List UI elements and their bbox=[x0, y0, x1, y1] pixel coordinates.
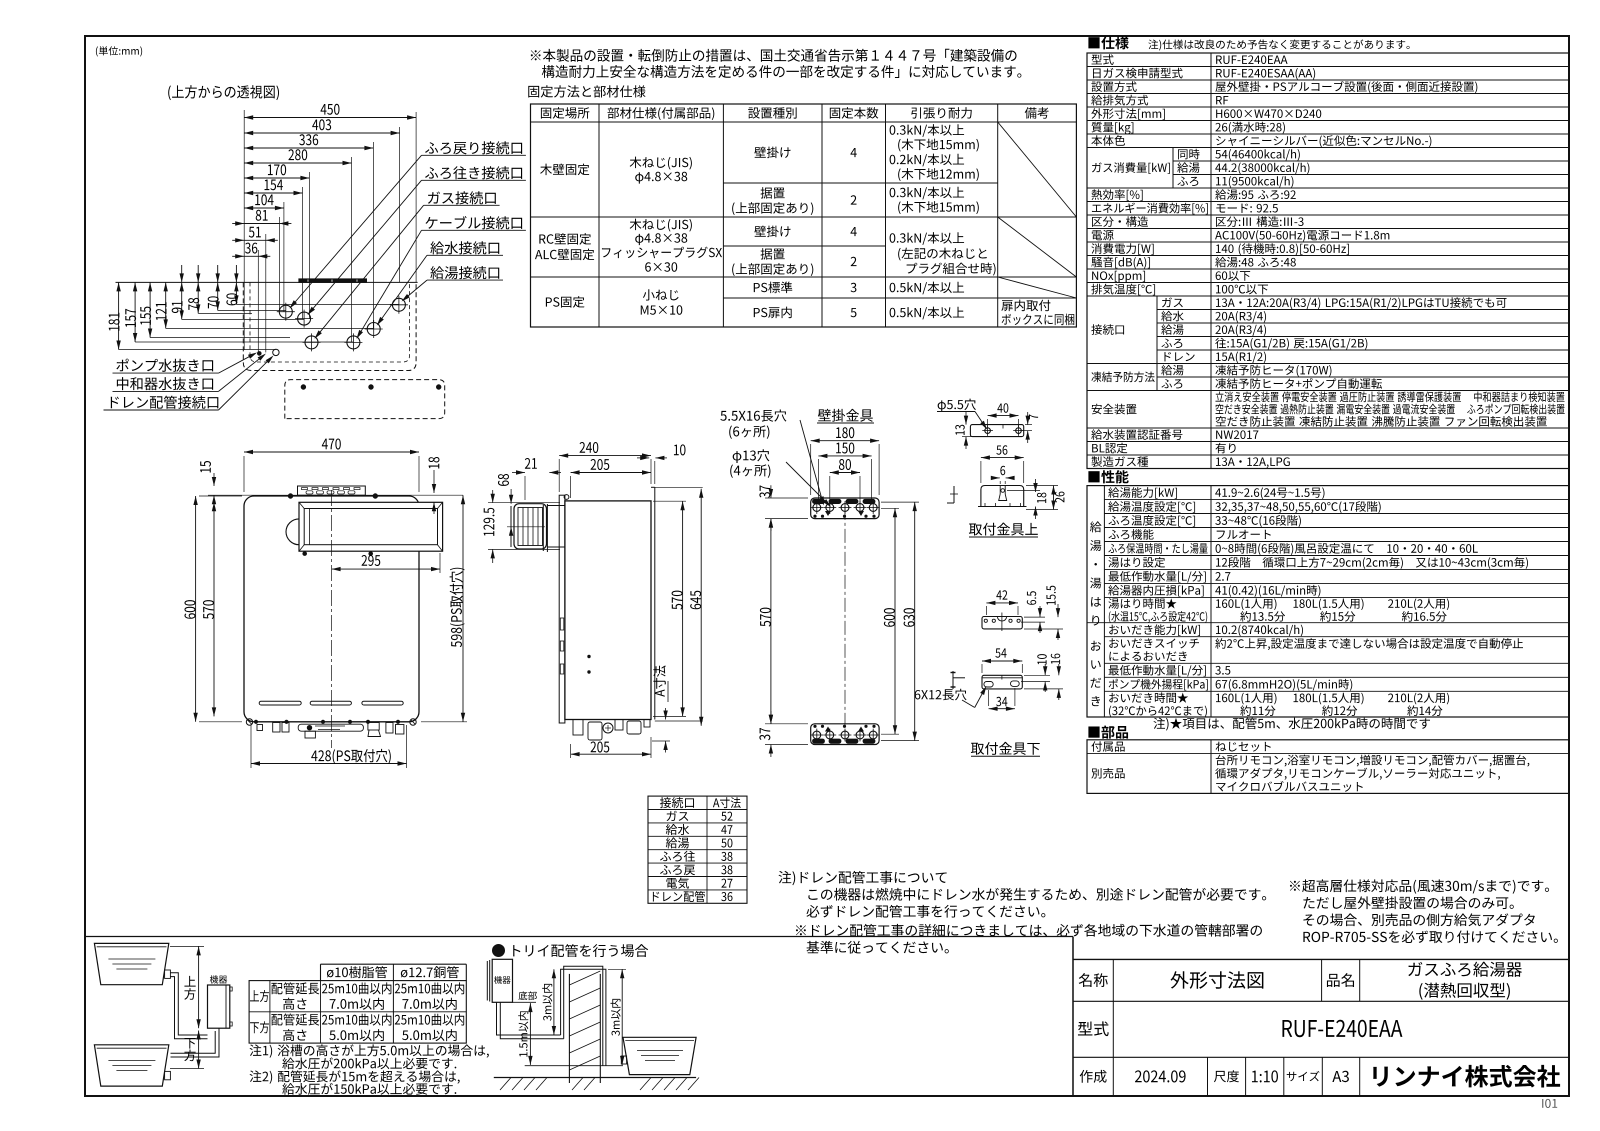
rear dim 150 bbox=[818, 455, 871, 457]
rear dim 180 bbox=[811, 440, 879, 442]
dim 34 bbox=[989, 708, 1015, 710]
top view dim 154 bbox=[244, 192, 302, 194]
label 取付金具上 bbox=[969, 523, 1038, 536]
screw dot bbox=[437, 385, 441, 389]
drain piping note bbox=[779, 871, 947, 885]
parts 付属品 bbox=[1091, 741, 1124, 752]
side view dim 68 bbox=[510, 489, 512, 504]
side view dim 129.5 bbox=[492, 490, 494, 503]
A寸法 row 接続口 bbox=[660, 797, 694, 808]
neutralizer drain circle bbox=[273, 349, 279, 355]
dim 15.5 bbox=[1057, 604, 1059, 617]
A-dimension table grid bbox=[648, 796, 747, 903]
fixing-method table title bbox=[528, 85, 645, 97]
rear view: top mounting bracket bbox=[811, 498, 879, 519]
torii dim 1.5m以内 bbox=[529, 1003, 531, 1065]
fixing table grid bbox=[531, 104, 1077, 327]
side view dim 10 bbox=[637, 457, 649, 459]
pipe unit->lower tub bbox=[171, 1028, 220, 1057]
label 給水接続口 bbox=[430, 241, 499, 254]
top view dim 450 bbox=[244, 117, 416, 119]
front view: bottom corner screws bbox=[246, 719, 252, 725]
label φ13穴 bbox=[733, 449, 770, 463]
front view: unit body bbox=[244, 496, 419, 722]
size A3 bbox=[1332, 1071, 1349, 1082]
orientation mark lower bbox=[952, 671, 954, 689]
unit 機器 box (left diagram) bbox=[208, 985, 230, 1028]
label ケーブル接続口 bbox=[425, 216, 522, 229]
side view dim 205 top bbox=[571, 472, 651, 474]
table header ø12.7銅管 bbox=[401, 966, 459, 978]
front view: ext line across body top bbox=[208, 494, 463, 496]
side view dim 645 bbox=[700, 489, 702, 726]
top fitting front view bbox=[981, 486, 1024, 507]
spec row 設置方式 bbox=[1091, 81, 1136, 92]
company リンナイ株式会社 bbox=[1373, 1065, 1560, 1088]
perf おいだき能力 bbox=[1109, 624, 1200, 636]
A寸法 row 給水 bbox=[666, 824, 689, 835]
rotated label おいだき bbox=[1091, 641, 1102, 706]
dim 6 bbox=[991, 477, 1000, 479]
rear view: center line bbox=[844, 506, 846, 738]
label ふろ戻り接続口 bbox=[425, 141, 522, 154]
front view: bottom louvers bbox=[259, 701, 301, 705]
torii dim 3m以内 left bbox=[553, 969, 555, 1035]
front view dim 600 bbox=[195, 496, 197, 722]
dim 26 bbox=[1053, 486, 1055, 510]
perf row 給湯能力[kW] bbox=[1108, 487, 1177, 499]
top view dim 403 bbox=[244, 132, 399, 134]
front view dim 428(PS取付穴) bbox=[251, 763, 407, 765]
spec 凍結予防方法 bbox=[1091, 372, 1154, 383]
orientation mark upper bbox=[953, 486, 955, 503]
spec row 排気温度[℃] bbox=[1091, 284, 1155, 296]
A寸法 row 電気 bbox=[666, 877, 689, 888]
spec row 型式 bbox=[1092, 54, 1114, 65]
spec ガス消費量 bbox=[1092, 162, 1170, 174]
spec row 外形寸法[mm] bbox=[1091, 108, 1165, 120]
top view depth dim 78 bbox=[197, 282, 199, 313]
front view dim 18 bbox=[433, 470, 435, 493]
screw dot bbox=[369, 385, 373, 389]
upper bath tub bbox=[94, 943, 168, 984]
performance header ■性能 bbox=[1088, 470, 1128, 483]
spec row エネルギー消費効率[%] bbox=[1092, 203, 1208, 215]
side view: dots bbox=[588, 655, 590, 657]
dim 56 bbox=[981, 457, 1024, 459]
side view dim 21 bbox=[512, 472, 525, 474]
scale 1:10 bbox=[1252, 1070, 1278, 1082]
torii: reference line bbox=[525, 1065, 623, 1067]
rear dim 600 bbox=[894, 508, 896, 734]
spec table grid bbox=[1087, 53, 1569, 469]
note 注1 bbox=[250, 1044, 489, 1057]
note line2 bbox=[542, 65, 1022, 78]
title サイズ bbox=[1287, 1071, 1320, 1081]
torii bath tub bbox=[623, 1037, 696, 1074]
spec row 給排気方式 bbox=[1091, 95, 1148, 106]
side view: back plate bbox=[559, 495, 565, 723]
torii: hatched wall bbox=[568, 974, 570, 1083]
top view dim 280 bbox=[244, 162, 351, 164]
connection port ケーブル接続口 bbox=[347, 336, 360, 349]
rear dim 37 bottom bbox=[770, 711, 772, 724]
label 壁掛金具 bbox=[818, 409, 873, 422]
connection port 給水接続口 bbox=[367, 323, 380, 336]
title 型式 bbox=[1078, 1021, 1109, 1036]
dim 上方 bbox=[198, 946, 200, 1028]
date 2024.09 bbox=[1135, 1070, 1186, 1082]
side view dim 240 bbox=[559, 455, 651, 457]
A寸法 row ふろ往 bbox=[660, 851, 695, 862]
perf 最低作動水量 bbox=[1109, 665, 1206, 677]
title 外形寸法図 bbox=[1170, 971, 1263, 989]
bottom fitting plan view strip bbox=[982, 617, 1022, 629]
dim 7 bbox=[1027, 412, 1029, 425]
spec row 質量[kg] bbox=[1092, 122, 1134, 135]
top view depth dim 121 bbox=[165, 282, 167, 328]
side view: left edge slots bbox=[560, 618, 564, 630]
torii: pipe down from unit bbox=[497, 1002, 561, 1035]
bottom fitting front view bbox=[982, 675, 1022, 689]
dim 40 bbox=[988, 415, 1019, 417]
side view: duct right flange bbox=[542, 505, 544, 551]
spec row 消費電力[W] bbox=[1091, 243, 1153, 255]
perf ポンプ機外揚程 bbox=[1109, 679, 1208, 691]
label ドレン配管接続口 bbox=[111, 396, 219, 409]
dim 16 bbox=[1058, 664, 1060, 675]
spec 接続口 bbox=[1091, 324, 1124, 335]
spec row NOx[ppm] bbox=[1092, 271, 1145, 283]
side view dim 205 bottom bbox=[571, 753, 651, 755]
top view dim 104 bbox=[244, 207, 284, 209]
front view: vent corner bevels bbox=[299, 502, 304, 508]
spec row 熱効率[%] bbox=[1091, 189, 1142, 201]
front view: bottom connection stubs bbox=[254, 720, 257, 723]
label ふろ往き接続口 bbox=[425, 166, 522, 179]
label ポンプ水抜き口 bbox=[116, 359, 213, 372]
front view dim 295 bbox=[332, 568, 440, 570]
top view: wall reference line bbox=[116, 281, 418, 283]
connection port ふろ往き接続口 bbox=[298, 312, 311, 325]
parts header ■部品 bbox=[1088, 726, 1128, 739]
rotated label 給湯・湯はり bbox=[1090, 521, 1101, 625]
top view dim 36 bbox=[244, 255, 258, 257]
perf row 最低作動水量[L/分] bbox=[1109, 571, 1206, 583]
spec row 電源 bbox=[1092, 230, 1114, 240]
top view: feature depth lines bbox=[119, 349, 276, 351]
connection port ガス接続口 bbox=[305, 336, 318, 349]
torii piping heading bbox=[493, 945, 505, 957]
A寸法 row ガス bbox=[667, 811, 689, 821]
torii: ground line bbox=[494, 1077, 696, 1079]
label 給湯接続口 bbox=[430, 266, 499, 279]
side view dim 570 bbox=[682, 501, 684, 716]
A寸法 row 給湯 bbox=[666, 837, 689, 848]
perf 湯はり時間 bbox=[1108, 598, 1176, 609]
perf row 給湯温度設定[℃] bbox=[1108, 501, 1195, 513]
perf おいだき時間 bbox=[1109, 692, 1188, 703]
front view dim 15 bbox=[213, 473, 215, 486]
title 尺度 bbox=[1214, 1070, 1239, 1082]
top view depth dim 60 bbox=[235, 282, 237, 304]
label 6X12長穴 bbox=[915, 689, 967, 701]
perf おいだきスイッチ bbox=[1109, 638, 1199, 648]
perf row ふろ保温時間・たし湯量 bbox=[1108, 543, 1207, 554]
sheet no I01 bbox=[1542, 1099, 1557, 1108]
label 取付金具下 bbox=[971, 742, 1040, 755]
dim 下方 bbox=[198, 1031, 200, 1069]
perf row ふろ機能 bbox=[1108, 529, 1153, 540]
table header ø10樹脂管 bbox=[327, 966, 387, 978]
top view depth dim 91 bbox=[181, 282, 183, 319]
top view: wall bracket strip bbox=[299, 279, 367, 283]
torii dim 3m以内 right bbox=[621, 969, 623, 1065]
top view: lower dashed box (pipe cover) bbox=[285, 380, 445, 419]
front view: top screws bbox=[288, 494, 292, 498]
note on installation regulation line1 bbox=[531, 49, 1017, 62]
perf row ふろ温度設定[℃] bbox=[1108, 515, 1195, 527]
fixing table remark diagonals bbox=[998, 122, 1077, 217]
spec section header ■仕様 bbox=[1088, 36, 1128, 49]
connection port ふろ戻り接続口 bbox=[279, 305, 292, 318]
spec row 日ガス検申請型式 bbox=[1093, 68, 1183, 79]
dim 42 bbox=[986, 602, 1018, 604]
rear dim 37 top bbox=[770, 485, 772, 498]
side view: wall plate behind bbox=[654, 487, 656, 719]
spec row 騒音[dB(A)] bbox=[1091, 257, 1150, 269]
top view: unit body dashed outline bbox=[243, 282, 416, 370]
dim 54 bbox=[982, 660, 1022, 662]
torii: pipe over wall bbox=[561, 969, 606, 1065]
bottom-left info box border bbox=[85, 936, 1073, 938]
pipe tub->unit bbox=[170, 973, 208, 1035]
label ガス接続口 bbox=[428, 191, 496, 204]
rear dim 630 bbox=[914, 502, 916, 740]
front view: exhaust vent outer bbox=[299, 502, 443, 551]
screw dot bbox=[301, 385, 305, 389]
label 5.5X16長穴 bbox=[720, 409, 786, 421]
perf footnote bbox=[1153, 718, 1430, 731]
dim 6.5 bbox=[1039, 606, 1041, 617]
top fitting plan view strip bbox=[970, 425, 1023, 437]
spec note bbox=[1148, 39, 1409, 50]
title block grid bbox=[1073, 958, 1569, 960]
note 注2 bbox=[250, 1070, 460, 1083]
top view dim 51 bbox=[244, 239, 266, 241]
top view dim 336 bbox=[244, 147, 373, 149]
spec 安全装置 bbox=[1092, 404, 1137, 415]
front view: exhaust vent inner bbox=[304, 509, 437, 545]
rear dim 570 bbox=[770, 519, 772, 724]
side view: body bbox=[565, 501, 651, 720]
front view: vent left round duct bbox=[286, 519, 299, 545]
A寸法 row ふろ戻 bbox=[660, 865, 695, 875]
side view dim A寸法 bbox=[665, 708, 667, 720]
top view depth dim 70 bbox=[217, 282, 219, 310]
front view dim 570 bbox=[213, 502, 215, 716]
spec row 本体色 bbox=[1091, 135, 1125, 146]
front view: center line bbox=[331, 490, 333, 748]
perf row 給湯器内圧損[kPa] bbox=[1108, 585, 1203, 597]
high-rise note line1 bbox=[1290, 879, 1549, 893]
A寸法 row ドレン配管 bbox=[653, 891, 705, 902]
title 品名 bbox=[1327, 973, 1354, 987]
perf row 湯はり設定 bbox=[1108, 557, 1165, 568]
top view: arrows above wall line bbox=[181, 265, 183, 282]
pump drain dot bbox=[258, 352, 262, 356]
performance table grid bbox=[1087, 486, 1569, 717]
connection port 給湯接続口 bbox=[392, 298, 405, 311]
parts table grid bbox=[1087, 740, 1569, 794]
label 中和器水抜き口 bbox=[117, 377, 213, 390]
front view dim 470 bbox=[244, 451, 419, 453]
title 作成 bbox=[1080, 1070, 1107, 1083]
dim 10 bbox=[1044, 664, 1046, 675]
dim 18 bbox=[1035, 479, 1037, 492]
lower bath tub bbox=[94, 1045, 168, 1086]
spec row 区分・構造 bbox=[1092, 216, 1148, 227]
title 名称 bbox=[1079, 973, 1108, 987]
label φ5.5穴 bbox=[938, 399, 976, 412]
top view depth dim 155 bbox=[149, 282, 151, 337]
model RUF-E240EAA bbox=[1282, 1020, 1402, 1037]
rear dim 80 bbox=[830, 472, 860, 474]
parts 別売品 bbox=[1091, 768, 1124, 779]
side view: fan duct bbox=[514, 504, 547, 549]
piping length table bbox=[321, 963, 467, 965]
torii: unit box bbox=[492, 959, 512, 1002]
label 機器 bbox=[210, 975, 228, 983]
side view: bottom pipes bbox=[573, 720, 583, 736]
top view dim 81 bbox=[244, 223, 279, 225]
top view depth dim 157 bbox=[134, 282, 136, 342]
top view dim 170 bbox=[244, 177, 309, 179]
unit note (単位:mm) bbox=[96, 46, 142, 56]
label 底部 bbox=[518, 991, 536, 1000]
top view dim extension lines bbox=[243, 110, 245, 350]
title ガスふろ給湯器 bbox=[1408, 962, 1522, 977]
front view: wall bracket plate bbox=[298, 486, 366, 495]
top view depth dim 181 bbox=[118, 282, 120, 349]
title: top perspective view bbox=[168, 85, 279, 100]
dim 13 bbox=[965, 412, 967, 425]
front view: screws under vent bbox=[303, 552, 307, 556]
front view dim 598(PS取付穴) bbox=[462, 495, 464, 722]
rear view: bottom mounting bracket bbox=[811, 724, 879, 745]
